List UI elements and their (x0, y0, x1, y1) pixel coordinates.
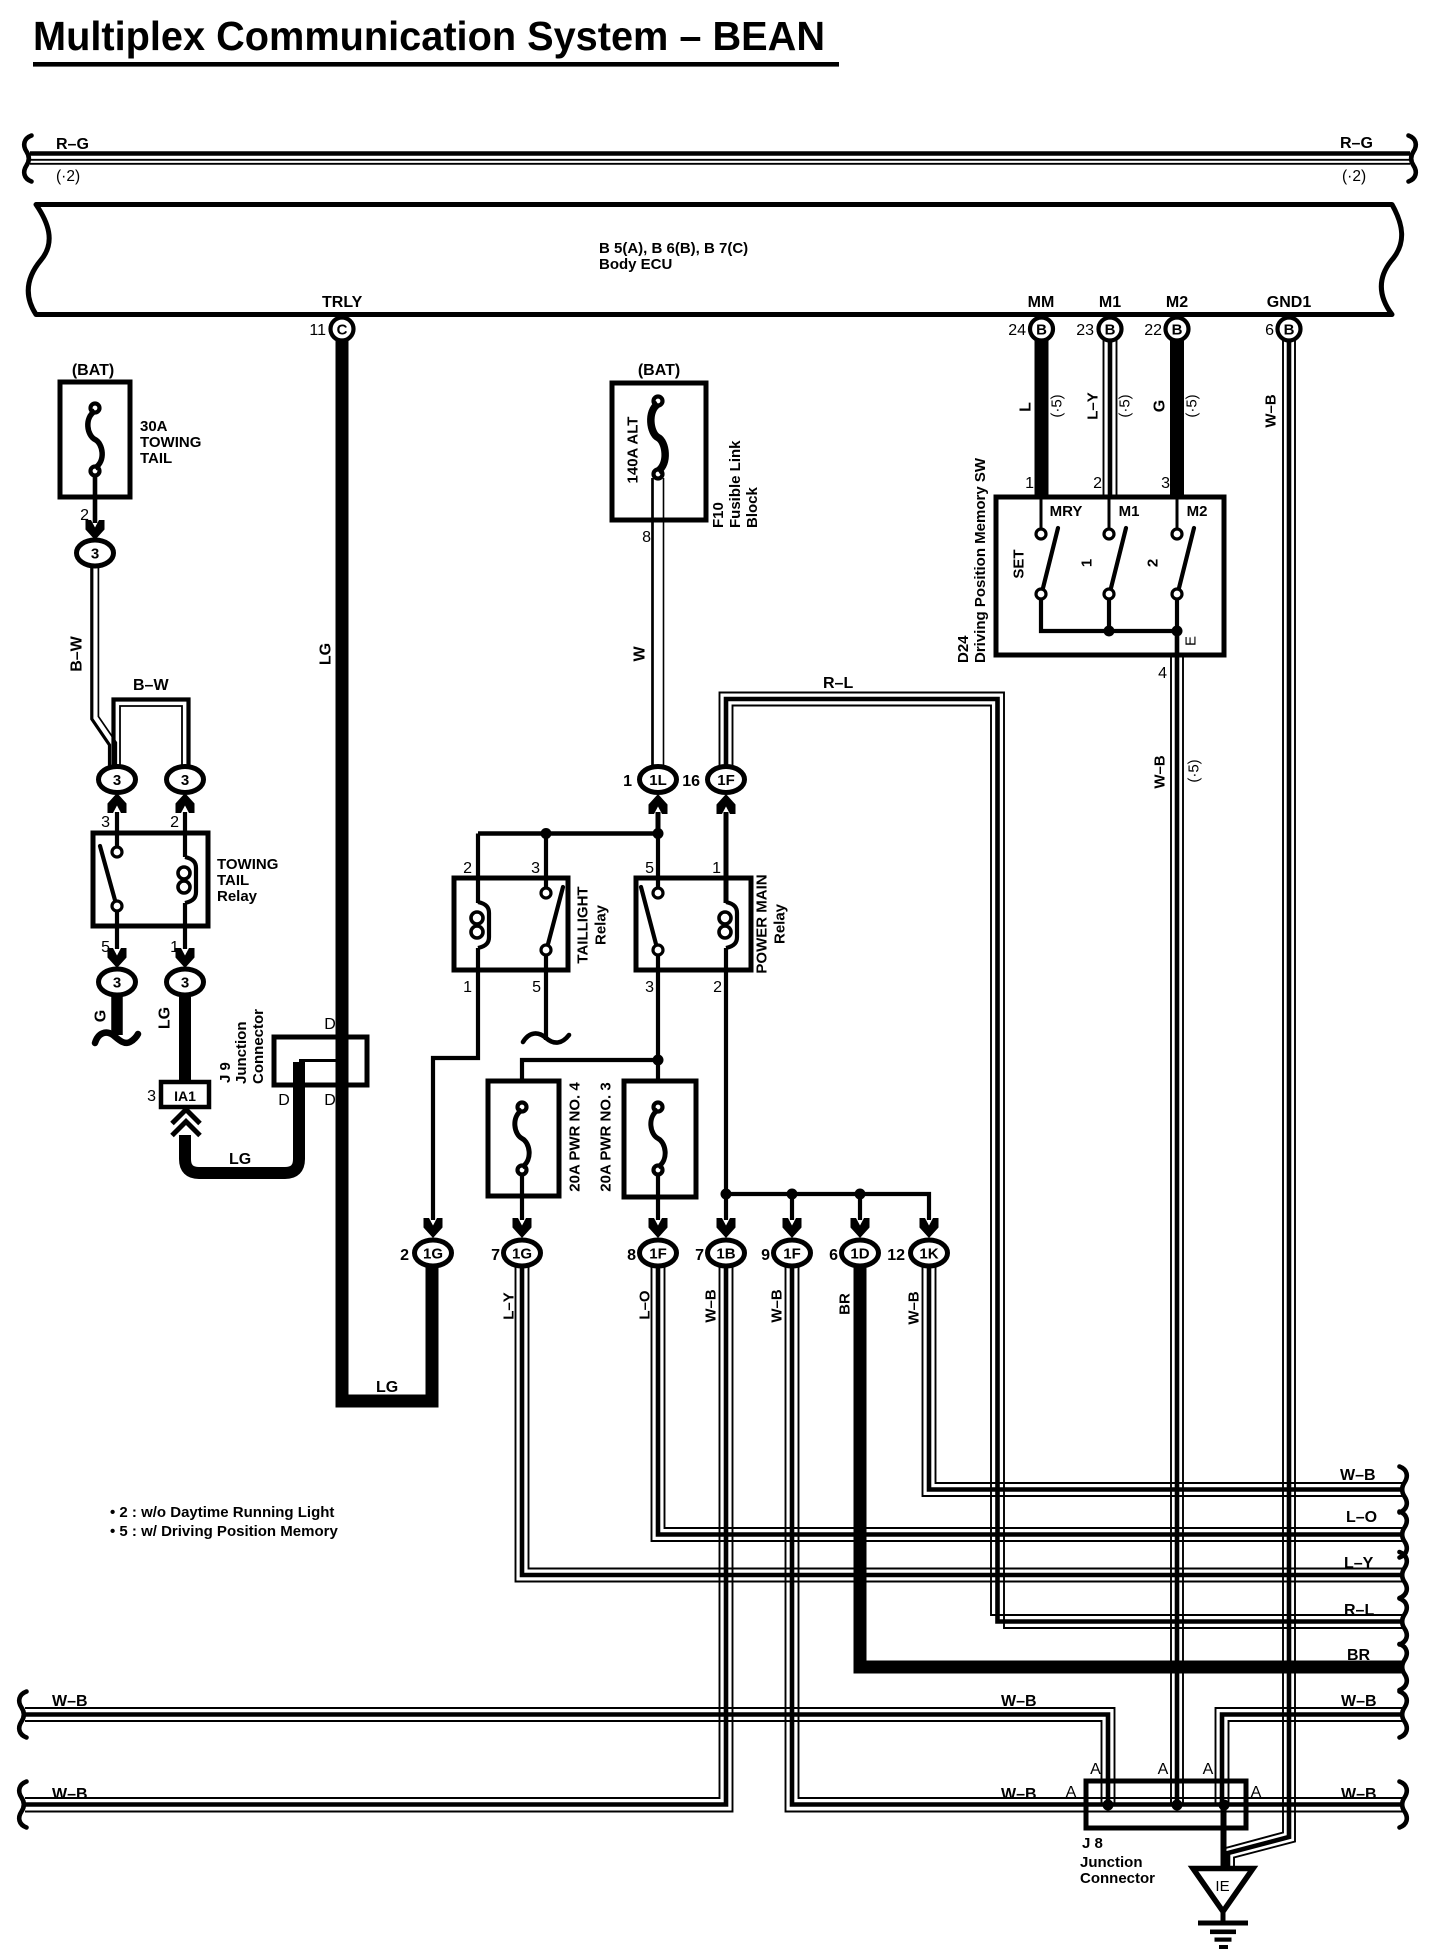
node A label above J8 right (1203, 1761, 1214, 1778)
wire R-G bus left break symbol (24, 136, 31, 182)
node A label above J8 middle (1158, 1761, 1169, 1778)
svg-text:TOWING: TOWING (217, 856, 278, 873)
wire D24 common bus (1041, 599, 1177, 631)
node pin M2 22 (B) (1144, 294, 1188, 341)
fuse 140A ALT (612, 383, 706, 520)
svg-text:D: D (324, 1092, 336, 1109)
node (BAT) label left (72, 362, 114, 379)
svg-text:16: 16 (682, 773, 700, 790)
svg-text:1: 1 (1079, 559, 1096, 567)
svg-text:A: A (1203, 1761, 1214, 1778)
wire BR right break symbol (1400, 1644, 1407, 1690)
node A label left of J8 (1066, 1784, 1077, 1801)
node connector oval 1D pin 6 (842, 1240, 879, 1266)
node connector oval 1L pin 1 (640, 767, 677, 793)
node G label (93, 1010, 110, 1022)
node B-W label (U link) (133, 677, 169, 694)
node W-B label (bus1 left) (52, 1693, 88, 1710)
svg-text:W: W (632, 646, 649, 662)
svg-text:140A ALT: 140A ALT (625, 417, 642, 484)
svg-text:W–B: W–B (52, 1693, 88, 1710)
svg-text:A: A (1158, 1761, 1169, 1778)
node junction dot (bus to 1F9) (787, 1189, 798, 1200)
svg-text:Driving Position Memory SW: Driving Position Memory SW (972, 457, 989, 663)
svg-text:W–B: W–B (1001, 1693, 1037, 1710)
node junction dot (D24 bus M1) (1104, 626, 1115, 637)
node POWER MAIN Relay label (754, 874, 789, 973)
node R-L label (top) (823, 675, 853, 692)
svg-text:3: 3 (645, 979, 654, 996)
node connector oval 1B pin 7 (708, 1240, 745, 1266)
node TAILLIGHT Relay label (575, 886, 610, 963)
svg-text:MRY: MRY (1050, 503, 1083, 520)
node pin MM 24 (B) (1008, 294, 1054, 341)
wire G from M2 pin 22 to D24 pin 3 (1170, 340, 1184, 499)
node (*2) label right (1342, 168, 1366, 185)
relay TAILLIGHT box (454, 878, 568, 970)
node MRY label (1050, 503, 1083, 520)
node connector arrow down into 1D pin6 (851, 1218, 870, 1238)
node pin M1 23 (B) (1076, 294, 1121, 341)
wire R-L right break symbol (1400, 1599, 1407, 1645)
node connector oval 3 (relay pin 2) (167, 767, 204, 793)
svg-text:B: B (1284, 322, 1295, 339)
node pin 9 label (1F) (761, 1247, 770, 1264)
node pin 3 label (D24) (1161, 475, 1170, 492)
svg-text:B: B (1105, 322, 1116, 339)
svg-text:• 2 : w/o Daytime Running Ligh: • 2 : w/o Daytime Running Light (110, 1504, 334, 1521)
svg-text:J 8: J 8 (1082, 1835, 1103, 1852)
wire B-W from fuse connector to towing tail relay (92, 567, 117, 766)
svg-text:LG: LG (157, 1007, 174, 1029)
node R-G label right (1340, 135, 1373, 152)
svg-text:7: 7 (695, 1247, 704, 1264)
svg-text:20A PWR NO. 4: 20A PWR NO. 4 (567, 1082, 584, 1192)
svg-text:(·5): (·5) (1049, 394, 1066, 417)
node pin 5 label (towing relay) (101, 939, 110, 956)
node LG label (J9 loop) (229, 1151, 251, 1168)
node pin GND1 6 (B) (1265, 294, 1311, 341)
svg-text:B–W: B–W (69, 635, 86, 671)
svg-text:L: L (1018, 402, 1035, 412)
node pin 2 label (30A fuse) (80, 507, 89, 524)
node W-B label (below 1B7) (703, 1289, 720, 1323)
node J 9 Junction Connector label (217, 1009, 267, 1084)
wire LG from J9 to IA1 (185, 1062, 299, 1173)
node pin 1 label (power main) (712, 860, 721, 877)
wire taillight pin 5 to open end (544, 955, 548, 1040)
node LG label (trunk) (318, 643, 335, 665)
svg-text:D: D (278, 1092, 290, 1109)
wire power main pin 2 down (724, 948, 728, 1220)
title Multiplex Communication System - BEAN (33, 13, 839, 67)
wire link to fuse PWR NO.4 (522, 1060, 658, 1102)
svg-text:1: 1 (623, 773, 632, 790)
node pin 5 label (taillight) (532, 979, 541, 996)
svg-text:W–B: W–B (1341, 1786, 1377, 1803)
node SET label (1011, 549, 1028, 578)
svg-text:1G: 1G (512, 1246, 532, 1263)
svg-text:3: 3 (147, 1088, 156, 1105)
wire R-G bus (top) (30, 154, 1410, 164)
switch D24 Driving Position Memory SW box (996, 497, 1224, 655)
svg-text:22: 22 (1144, 322, 1162, 339)
relay TOWING TAIL box (93, 833, 208, 926)
svg-text:1F: 1F (783, 1246, 801, 1263)
wire W-B from 1F pin 9 through J8 to right edge (786, 1267, 1404, 1812)
node connector arrow down into 1G pin7 (513, 1218, 532, 1238)
node M1 label (D24) (1119, 503, 1140, 520)
wire link taillight pin2 to power main pin5 (478, 831, 658, 836)
node junction dot J8 left (1103, 1800, 1114, 1811)
svg-text:TAIL: TAIL (140, 450, 172, 467)
svg-text:4: 4 (1158, 665, 1167, 682)
svg-text:23: 23 (1076, 322, 1094, 339)
wire L-Y right break symbol (1400, 1552, 1407, 1598)
wire W-B bus1 right break symbol (1400, 1692, 1407, 1738)
node pin 2 label (1G) (400, 1247, 409, 1264)
node pin 16 label (1F) (682, 773, 700, 790)
svg-text:L–O: L–O (637, 1290, 654, 1320)
svg-text:24: 24 (1008, 322, 1026, 339)
svg-text:M1: M1 (1099, 294, 1121, 311)
switch SET contacts (1036, 499, 1058, 599)
wire pin2 bus to 1K (726, 1194, 929, 1220)
node L-Y label (1085, 392, 1102, 420)
node pin 3 label (towing relay) (101, 814, 110, 831)
node 20A PWR NO.4 label (567, 1082, 584, 1192)
svg-text:LG: LG (376, 1379, 398, 1396)
svg-text:(·5): (·5) (1186, 759, 1203, 782)
svg-text:BR: BR (837, 1293, 854, 1315)
node pin 8 label (F10) (642, 529, 651, 546)
svg-text:(BAT): (BAT) (638, 362, 680, 379)
svg-text:5: 5 (645, 860, 654, 877)
svg-text:12: 12 (887, 1247, 905, 1264)
node (*5) label (D24 wire) (1186, 759, 1203, 782)
svg-text:Multiplex Communication System: Multiplex Communication System – BEAN (33, 13, 825, 59)
svg-text:A: A (1090, 1761, 1101, 1778)
node pin 1 label (D24) (1025, 475, 1034, 492)
svg-text:20A PWR NO. 3: 20A PWR NO. 3 (598, 1082, 615, 1191)
wire into taillight pin 3 (544, 834, 548, 889)
svg-text:TOWING: TOWING (140, 434, 201, 451)
wire into towing relay pin 2 (183, 812, 187, 857)
node L-Y label (right) (1344, 1555, 1374, 1572)
wire W-B right break symbol (1400, 1467, 1407, 1513)
svg-text:2: 2 (400, 1247, 409, 1264)
node W-B label (GND1) (1263, 394, 1280, 428)
fuse 20A PWR NO.4 (488, 1081, 559, 1196)
node pin 8 label (1F) (627, 1247, 636, 1264)
wire W-B from GND1 to ground IE (1222, 340, 1295, 1869)
wire bus drop to 1F pin 9 (790, 1194, 794, 1220)
node W-B label (bus1 middle) (1001, 1693, 1037, 1710)
node D24 label (955, 457, 989, 663)
node junction dot (pin3 / fuse link) (653, 1055, 664, 1066)
ground symbol bars (1198, 1911, 1248, 1949)
wire L-Y from 1G pin 7 to right edge (516, 1267, 1404, 1582)
node pin 3 label (taillight) (531, 860, 540, 877)
node open end squiggle (pin 5) (523, 1033, 569, 1042)
fuse 20A PWR NO.3 (624, 1081, 696, 1197)
svg-text:A: A (1251, 1784, 1262, 1801)
node connector oval 3 (lower left) (99, 969, 136, 995)
svg-text:F10: F10 (710, 502, 727, 528)
svg-text:6: 6 (829, 1247, 838, 1264)
svg-text:2: 2 (1145, 559, 1162, 567)
node pin 2 label (towing relay) (170, 814, 179, 831)
node pin 7 label (1G) (491, 1247, 500, 1264)
node BR label (right) (1347, 1647, 1371, 1664)
node D label below J9 left (278, 1092, 290, 1109)
svg-text:Junction: Junction (1080, 1854, 1143, 1871)
svg-text:1G: 1G (423, 1246, 443, 1263)
node junction dot (pin2 bus) (721, 1189, 732, 1200)
node connector arrow down into 1F pin8 (649, 1218, 668, 1238)
wire towing relay pin 5 down (115, 911, 119, 949)
svg-text:2: 2 (1093, 475, 1102, 492)
node connector oval 1F pin 16 (708, 767, 745, 793)
svg-text:3: 3 (531, 860, 540, 877)
node pin 3 label (IA1) (147, 1088, 156, 1105)
wire power main pin 3 down to fuse PWR NO.3 (656, 955, 660, 1102)
svg-text:Fusible Link: Fusible Link (727, 440, 744, 528)
svg-text:1: 1 (1025, 475, 1034, 492)
node connector arrow down into 3 (pin5) (108, 948, 127, 968)
fuse 30A TOWING TAIL (60, 382, 130, 523)
node note *5 w/ Driving Position Memory (110, 1523, 338, 1540)
wire towing relay pin 1 down (183, 903, 187, 949)
node junction dot on LG trunk at J9 (337, 1055, 348, 1066)
wire W-B from D24 pin 4 to J8 (1171, 634, 1183, 1805)
node (*2) label left (56, 168, 80, 185)
wire LG trunk from TRLY pin 11 to connector 1G pin 2 (342, 340, 432, 1401)
node R-L label (right) (1344, 1602, 1374, 1619)
relay TOWING TAIL switch (100, 846, 122, 911)
node connector oval 1F pin 8 (640, 1240, 677, 1266)
svg-text:5: 5 (532, 979, 541, 996)
node (BAT) label right (638, 362, 680, 379)
svg-text:R–G: R–G (56, 136, 89, 153)
svg-text:GND1: GND1 (1267, 294, 1312, 311)
node junction dot (power main pin5 tap) (653, 828, 664, 839)
svg-text:TAIL: TAIL (217, 872, 249, 889)
svg-text:W–B: W–B (1001, 1786, 1037, 1803)
svg-text:POWER MAIN: POWER MAIN (754, 874, 771, 973)
node pin 2 label (D24) (1093, 475, 1102, 492)
svg-text:(·5): (·5) (1184, 394, 1201, 417)
wire power main pin5 into box (656, 834, 660, 889)
node pin 2 label (taillight) (463, 860, 472, 877)
node R-G label left (56, 136, 89, 153)
svg-text:2: 2 (463, 860, 472, 877)
relay POWER MAIN coil (719, 902, 737, 948)
svg-text:3: 3 (113, 772, 121, 789)
svg-text:L–Y: L–Y (501, 1292, 518, 1320)
svg-text:L–Y: L–Y (1344, 1555, 1374, 1572)
svg-text:2: 2 (170, 814, 179, 831)
svg-text:1B: 1B (716, 1246, 735, 1263)
svg-text:B: B (1036, 322, 1047, 339)
node pin 7 label (1B) (695, 1247, 704, 1264)
node (*5) label (L-Y) (1117, 394, 1134, 417)
svg-text:B–W: B–W (133, 677, 169, 694)
node E label (D24) (1183, 636, 1200, 646)
node LG label (bottom turn) (376, 1379, 398, 1396)
wire from 1L down to relay junction (656, 812, 661, 836)
svg-text:8: 8 (642, 529, 651, 546)
svg-text:1D: 1D (850, 1246, 869, 1263)
svg-text:30A: 30A (140, 418, 168, 435)
node L-O label (right) (1346, 1509, 1377, 1526)
node junction dot (bus to 1D6) (855, 1189, 866, 1200)
svg-text:Connector: Connector (250, 1009, 267, 1084)
svg-text:Block: Block (744, 486, 761, 528)
node M2 label (D24) (1187, 503, 1208, 520)
switch M2 contacts (1172, 499, 1194, 599)
node pin 12 label (1K) (887, 1247, 905, 1264)
svg-text:8: 8 (627, 1247, 636, 1264)
svg-text:3: 3 (113, 975, 121, 992)
node connector arrow down into 1G pin2 (424, 1218, 443, 1238)
svg-text:6: 6 (1265, 322, 1274, 339)
node connector oval 1F pin 9 (774, 1240, 811, 1266)
svg-text:1F: 1F (717, 772, 735, 789)
node pin 1 label (towing relay) (170, 939, 179, 956)
node W-B label (bus1 right) (1341, 1693, 1377, 1710)
node J8 junction connector box (1086, 1781, 1246, 1828)
svg-text:TRLY: TRLY (322, 294, 363, 311)
relay POWER MAIN switch (641, 887, 663, 955)
wire into towing relay pin 3 (115, 812, 119, 846)
wire W-B bus2 left break symbol (19, 1782, 26, 1828)
node pin TRLY 11 (C) (309, 294, 362, 341)
node W-B label (bus2 right) (1341, 1786, 1377, 1803)
node W-B label (bus2 middle) (1001, 1786, 1037, 1803)
node W label (632, 646, 649, 662)
wire W-B bus2 right break symbol (1400, 1782, 1407, 1828)
node 2 label (switch) (1145, 559, 1162, 567)
svg-text:L–Y: L–Y (1085, 392, 1102, 420)
wire R-G bus right break symbol (1409, 136, 1416, 182)
node connector oval 3 (lower right) (167, 969, 204, 995)
svg-text:9: 9 (761, 1247, 770, 1264)
svg-text:W–B: W–B (906, 1291, 923, 1325)
wire W-B bus upper right segment to J8 (1216, 1708, 1404, 1805)
node connector arrow down into 3 (pin1) (176, 948, 195, 968)
node junction dot J8 middle (1172, 1800, 1183, 1811)
svg-text:M2: M2 (1166, 294, 1188, 311)
node BR label (below 1D6) (837, 1293, 854, 1315)
node L-Y label (below 1G7) (501, 1292, 518, 1320)
wire W-B from 1B pin 7 to left edge (25, 1267, 733, 1812)
node J 8 Junction Connector label (1080, 1835, 1155, 1887)
node junction dot (D24 bus M2) (1172, 626, 1183, 637)
svg-text:TAILLIGHT: TAILLIGHT (575, 886, 592, 963)
wire taillight pin 1 to connector 1G pin 2 (433, 948, 478, 1220)
svg-text:W–B: W–B (52, 1786, 88, 1803)
svg-text:R–L: R–L (1344, 1602, 1374, 1619)
node A label above J8 left (1090, 1761, 1101, 1778)
node LG label (left) (157, 1007, 174, 1029)
wire inside J9 to trunk (299, 1059, 342, 1062)
svg-text:J 9: J 9 (217, 1062, 234, 1083)
node connector arrow up into 3 (right) (176, 793, 195, 813)
node connector arrow up into 1F (717, 794, 736, 814)
svg-text:(BAT): (BAT) (72, 362, 114, 379)
svg-text:G: G (93, 1010, 110, 1022)
node connector arrow up into 1L (649, 794, 668, 814)
node connector arrow down into 1B pin7 (717, 1218, 736, 1238)
node connector IA1 (J9 pin 3) (161, 1082, 209, 1107)
node F10 Fusible Link Block label (710, 440, 761, 528)
switch M1 contacts (1104, 499, 1126, 599)
svg-text:L–O: L–O (1346, 1509, 1377, 1526)
node connector arrow up into 3 (left) (108, 793, 127, 813)
node 20A PWR NO.3 label (598, 1082, 615, 1191)
svg-text:MM: MM (1028, 294, 1055, 311)
node connector arrow into 3 (86, 520, 105, 540)
svg-text:1: 1 (712, 860, 721, 877)
node double chevron arrow into IA1 (172, 1110, 200, 1136)
svg-text:1F: 1F (649, 1246, 667, 1263)
svg-text:1K: 1K (919, 1246, 938, 1263)
wire bus drop to 1D pin 6 (858, 1194, 862, 1220)
wire LG from connector to IA1 (179, 995, 191, 1082)
wire R-L from 1F pin 16 to right edge (720, 693, 1404, 1629)
wire fuse NO.3 down to 1F pin 8 (656, 1174, 660, 1220)
wire L-O from 1F pin 8 to right edge (652, 1267, 1404, 1541)
wire into taillight pin 2 (476, 834, 480, 904)
svg-text:W–B: W–B (703, 1289, 720, 1323)
node L-O label (below 1F8) (637, 1290, 654, 1320)
node connector arrow down into 1K pin12 (920, 1218, 939, 1238)
relay TAILLIGHT coil (471, 902, 489, 948)
svg-text:B 5(A), B 6(B), B 7(C): B 5(A), B 6(B), B 7(C) (599, 240, 748, 257)
svg-text:G: G (1152, 400, 1169, 412)
node junction dot (taillight pin3 tap) (541, 828, 552, 839)
wire BR from 1D pin 6 to right edge (860, 1267, 1403, 1667)
node pin 1 label (1L) (623, 773, 632, 790)
svg-text:2: 2 (713, 979, 722, 996)
svg-text:Connector: Connector (1080, 1870, 1155, 1887)
svg-text:3: 3 (181, 772, 189, 789)
block Body ECU B5(A) B6(B) B7(C) (28, 205, 1401, 315)
node junction dot J8 right (1219, 1800, 1230, 1811)
wire W from F10 to connector 1L (653, 478, 664, 766)
svg-text:IA1: IA1 (174, 1088, 196, 1104)
node W-B label (bus2 left) (52, 1786, 88, 1803)
node connector oval 1G pin 2 (415, 1240, 452, 1266)
node connector arrow down into 1F pin9 (783, 1218, 802, 1238)
svg-text:(·2): (·2) (1342, 168, 1366, 185)
ground IE triangle (1193, 1869, 1253, 1912)
wire G pigtail to body ground (95, 995, 138, 1043)
wire ground stem from J8 (1221, 1805, 1227, 1868)
wire L-O right break symbol (1400, 1512, 1407, 1558)
svg-text:3: 3 (1161, 475, 1170, 492)
node A label right of J8 (1251, 1784, 1262, 1801)
node note *2 w/o Daytime Running Light (110, 1504, 334, 1521)
relay TAILLIGHT switch (541, 887, 563, 955)
svg-text:1L: 1L (649, 772, 667, 789)
node pin 6 label (1D) (829, 1247, 838, 1264)
svg-text:D: D (324, 1016, 336, 1033)
node (*5) label (G) (1184, 394, 1201, 417)
svg-text:(·5): (·5) (1117, 394, 1134, 417)
node W-B label (right top) (1340, 1467, 1376, 1484)
